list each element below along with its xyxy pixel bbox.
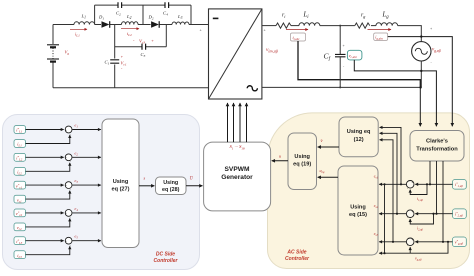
- summing junction 3: [26, 178, 101, 199]
- summing junction 5: [26, 234, 101, 255]
- wire AC source bottom down: [420, 60, 422, 87]
- svg-text:+: +: [65, 240, 67, 244]
- summing junction 1: [26, 123, 101, 144]
- svg-text:s: s: [144, 176, 146, 181]
- svg-text:Clarke's: Clarke's: [426, 139, 448, 145]
- svg-text:ig,abc: ig,abc: [375, 35, 383, 42]
- measurement wire vc down: [354, 60, 436, 126]
- inductor L1: [74, 22, 95, 25]
- inductor Li: [299, 23, 320, 26]
- svg-text:Using: Using: [294, 154, 310, 160]
- svg-text:Using: Using: [163, 180, 178, 186]
- svg-text:(12): (12): [354, 137, 364, 143]
- svg-text:Controller: Controller: [154, 258, 179, 264]
- input box iL1: [14, 140, 26, 148]
- capacitor C3: [142, 44, 146, 50]
- current arrow ig: [368, 29, 392, 31]
- svg-text:+: +: [65, 212, 67, 216]
- svg-text:-: -: [70, 160, 71, 164]
- inductor Lg: [376, 23, 398, 26]
- wire rg to Lg: [371, 25, 376, 27]
- junction dots: [420, 35, 422, 37]
- svg-text:ii,abc: ii,abc: [293, 35, 301, 42]
- input box iL3: [14, 251, 26, 259]
- svg-text:AC Side: AC Side: [286, 249, 306, 255]
- feedback wires up to eq12: [380, 127, 401, 241]
- current arrow iL1: [70, 28, 87, 30]
- svg-text:Using eq: Using eq: [347, 129, 371, 135]
- input box iL2: [14, 167, 26, 175]
- wire eq12 to eq19: [318, 146, 339, 148]
- measurement wire ig right and down: [388, 37, 453, 127]
- svg-text:+: +: [121, 54, 124, 59]
- resistor ri: [276, 23, 291, 28]
- svg-text:Using: Using: [113, 179, 129, 185]
- diode D2: [148, 15, 160, 28]
- wire vg bundle vertical: [384, 184, 386, 253]
- label box vc,abc: [347, 50, 362, 60]
- svg-text:-: -: [407, 215, 408, 219]
- wire ri to Li: [291, 25, 299, 27]
- block eq12: [339, 117, 378, 157]
- svg-text:Using: Using: [350, 205, 366, 211]
- current arrow iL2: [121, 28, 139, 30]
- input box i*L3: [14, 237, 26, 245]
- svg-text:+: +: [412, 181, 414, 185]
- summing row 1: [374, 175, 453, 203]
- measurement wire ii down: [298, 41, 420, 87]
- input box i*L1: [14, 126, 26, 134]
- wire eq27 to eq28: [139, 185, 154, 187]
- inductor L3: [172, 22, 189, 25]
- input box vc2: [14, 223, 26, 231]
- wire Li to rg: [320, 25, 355, 27]
- svg-text:+: +: [151, 38, 154, 43]
- svg-text:-: -: [70, 132, 71, 136]
- svg-text:Generator: Generator: [221, 174, 253, 181]
- current arrow ii: [286, 29, 308, 31]
- block eq28: [156, 177, 187, 195]
- svg-text:DC Side: DC Side: [156, 251, 175, 257]
- reference box v*gab: [453, 237, 467, 247]
- wire top cap branch: [95, 4, 191, 6]
- svg-text:-: -: [70, 215, 71, 219]
- capacitor C2: [118, 2, 122, 8]
- svg-text:+: +: [412, 238, 414, 242]
- wire bottom rail left: [53, 87, 209, 89]
- input box vc1: [14, 195, 26, 203]
- summing row 3: [374, 232, 453, 262]
- wire C3 branch: [115, 25, 167, 88]
- inductor L2: [122, 22, 138, 25]
- resistor rg: [355, 23, 370, 28]
- summing junction 2: [26, 150, 101, 171]
- svg-text:+: +: [412, 210, 414, 214]
- wire Lg to corner, down to AC source: [398, 26, 422, 43]
- capacitor C4: [165, 2, 169, 8]
- converter U1 (DC/AC inverter): [209, 9, 262, 99]
- label box ii,abc: [291, 33, 306, 42]
- block eq19: [288, 133, 317, 190]
- summing junction 4: [26, 206, 101, 227]
- svg-text:+: +: [65, 128, 67, 132]
- gate signal wires: [228, 103, 247, 142]
- wire ueq eq15 to eq19: [318, 176, 338, 178]
- reference box i*1ab: [453, 180, 467, 190]
- block eq15: [338, 166, 378, 255]
- wire bottom rail right: [262, 86, 420, 88]
- diode D1: [98, 15, 110, 28]
- svg-text:-: -: [407, 244, 408, 248]
- svg-text:rg: rg: [361, 13, 365, 19]
- svg-text:eq (15): eq (15): [349, 212, 367, 218]
- battery Vg: [47, 45, 59, 62]
- wire battery verticals: [52, 25, 54, 88]
- wire converter to resistor ri: [262, 25, 276, 27]
- svg-text:Transformation: Transformation: [416, 147, 458, 153]
- svg-text:+: +: [65, 184, 67, 188]
- wire u eq19 to SVPWM: [272, 160, 288, 162]
- summing row 2: [374, 204, 453, 232]
- input box i*L2: [14, 153, 26, 161]
- svg-text:-: -: [407, 186, 408, 190]
- capacitor C1: [110, 60, 119, 63]
- svg-text:-: -: [70, 243, 71, 247]
- AC source vg: [412, 27, 441, 64]
- svg-text:eq (19): eq (19): [293, 162, 311, 168]
- Clarke output wires down: [430, 161, 443, 242]
- reference box i*2ab: [453, 209, 467, 219]
- block Clarke: [410, 131, 464, 162]
- svg-text:+: +: [65, 156, 67, 160]
- svg-text:vc,abc: vc,abc: [349, 53, 358, 60]
- input box v*c1: [14, 181, 26, 189]
- input box v*c2: [14, 209, 26, 217]
- svg-text:eq (27): eq (27): [111, 187, 129, 193]
- wire top rail left: [53, 24, 209, 26]
- wire branch verticals: [95, 5, 191, 24]
- block eq27: [102, 119, 139, 248]
- wire eq28 to SVPWM: [186, 185, 202, 187]
- svg-text:SVPWM: SVPWM: [225, 166, 250, 173]
- wire vg measurement down to Clarke: [419, 87, 421, 126]
- svg-text:eq (28): eq (28): [162, 187, 180, 193]
- svg-text:Controller: Controller: [285, 256, 310, 262]
- capacitor Cf: [324, 25, 346, 89]
- svg-text:-: -: [70, 187, 71, 191]
- label box ig,abc: [374, 33, 388, 42]
